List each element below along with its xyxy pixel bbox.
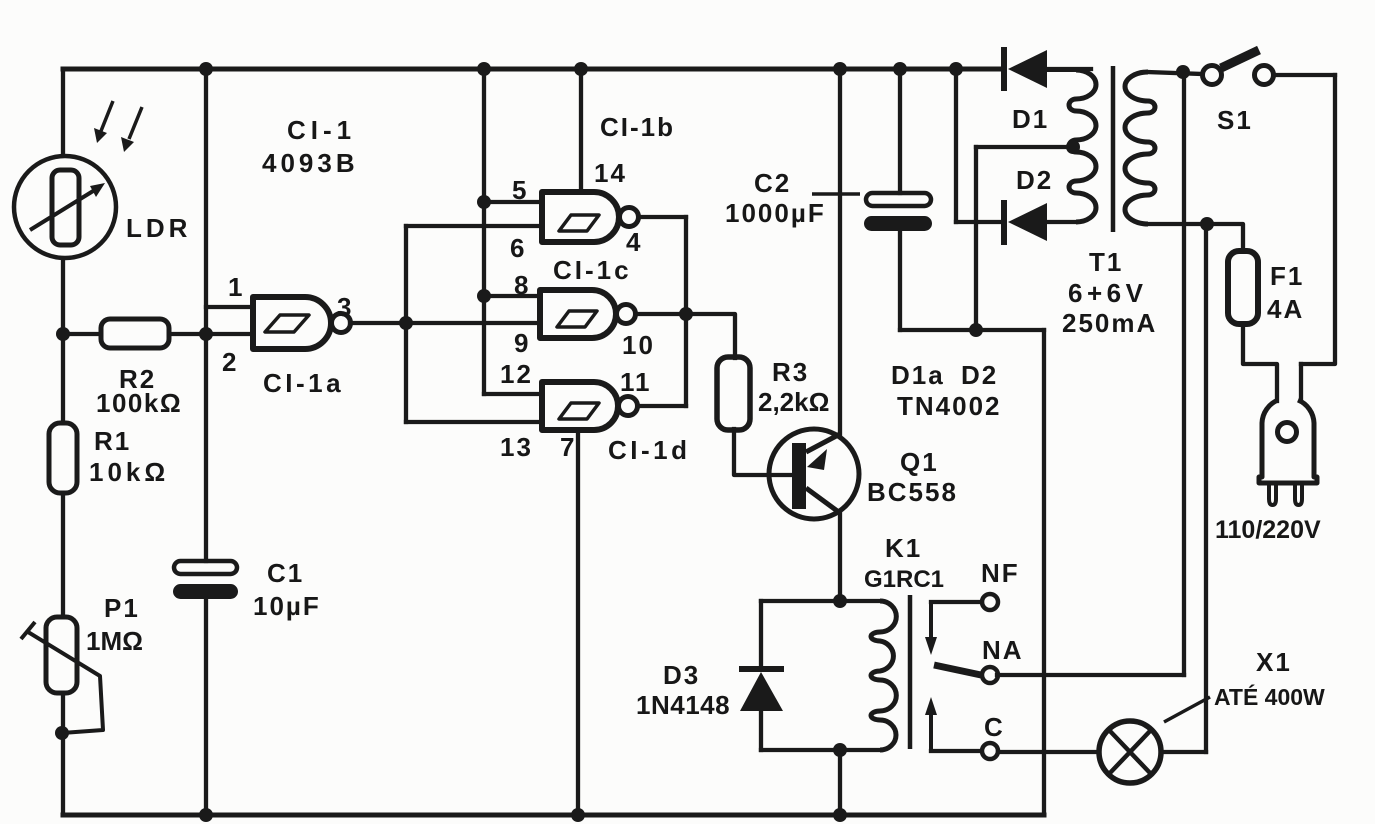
node R2-pin2-C1 (199, 327, 213, 341)
node center tap ground (969, 323, 983, 337)
wire pin5 stub (484, 200, 542, 204)
plug right prong (1295, 483, 1302, 505)
node bottom rail x838 (833, 808, 847, 822)
wire pin13 stub (406, 420, 542, 424)
diode D2 triangle (1008, 203, 1047, 241)
potentiometer P1 wiper tail tick (21, 622, 35, 639)
LDR body (52, 170, 79, 245)
wire C contact lead (931, 749, 981, 753)
svg-text:5: 5 (512, 175, 528, 205)
wire D3 top lead (759, 601, 763, 667)
node top rail x484 (477, 62, 491, 76)
wire R3 bottom to Q1 base (734, 429, 792, 475)
lamp X1 circle (1099, 721, 1161, 783)
svg-text:TN4002: TN4002 (897, 391, 1002, 421)
svg-text:100kΩ: 100kΩ (96, 388, 182, 418)
svg-text:250mA: 250mA (1062, 308, 1157, 338)
gate CI-1c output bubble (617, 305, 636, 324)
relay K1 core bar (908, 595, 913, 749)
node top rail x956 (949, 62, 963, 76)
svg-text:10kΩ: 10kΩ (89, 457, 169, 487)
transformer T1 secondary winding (1069, 70, 1096, 222)
gate CI-1c schmitt symbol (557, 311, 597, 327)
lamp X1 cross (1109, 730, 1151, 774)
gate CI-1d body (542, 382, 618, 430)
switch S1 right terminal (1255, 66, 1274, 85)
svg-text:D3: D3 (663, 660, 700, 690)
svg-text:T1: T1 (1089, 247, 1123, 277)
svg-text:NF: NF (981, 558, 1020, 588)
diode D1 cathode bar (1001, 47, 1007, 91)
wire R2 left lead (63, 332, 101, 336)
svg-text:6: 6 (510, 233, 526, 263)
node LDR-R2-R1 (56, 327, 70, 341)
svg-text:X1: X1 (1256, 647, 1292, 677)
LDR light arrow 2 head (121, 137, 134, 152)
node bottom rail x206 (199, 808, 213, 822)
LDR light arrow 1 head (94, 128, 107, 143)
wire R2 node to R1 (61, 334, 65, 423)
wire D2 branch vertical x956 (954, 69, 958, 222)
svg-text:K1: K1 (885, 533, 922, 563)
svg-text:ATÉ 400W: ATÉ 400W (1214, 683, 1325, 710)
LDR arrow head (90, 183, 105, 197)
gate CI-1a output bubble (332, 314, 351, 333)
wire D2 left lead (956, 220, 1002, 224)
transistor Q1 emitter line (806, 434, 840, 452)
svg-text:C: C (984, 712, 1005, 742)
svg-text:S1: S1 (1217, 105, 1253, 135)
wire gate-b output (639, 215, 686, 219)
wire relay to bottom rail (838, 750, 842, 815)
LDR diagonal arrow (30, 188, 98, 230)
svg-text:6+6V: 6+6V (1068, 278, 1147, 308)
wire NF contact lead (931, 600, 982, 604)
gate CI-1b schmitt symbol (559, 215, 599, 231)
potentiometer P1 body (46, 617, 77, 693)
relay C arrow head (925, 697, 937, 715)
diode D3 triangle (740, 672, 783, 711)
transistor Q1 emitter arrow (807, 449, 827, 470)
svg-text:C1: C1 (267, 558, 304, 588)
wire plug right neck (1299, 364, 1303, 400)
svg-text:2,2kΩ: 2,2kΩ (758, 387, 829, 417)
svg-text:D2: D2 (1016, 165, 1053, 195)
svg-text:NA: NA (982, 635, 1024, 665)
node pin8 (477, 289, 491, 303)
wire P1 to bottom rail (61, 693, 65, 815)
capacitor C1 bottom plate (174, 585, 237, 598)
relay NF arrow head (925, 637, 937, 655)
diode D1 triangle (1008, 50, 1047, 88)
resistor R3 (717, 357, 750, 430)
svg-text:R1: R1 (94, 426, 131, 456)
svg-text:8: 8 (514, 270, 530, 300)
svg-text:2: 2 (222, 347, 238, 377)
wire R2 right lead (169, 332, 206, 336)
capacitor C2 pointer line (812, 192, 860, 196)
wire NA contact to mains vertical (997, 673, 1184, 677)
diode D3 cathode bar (739, 666, 784, 672)
gate CI-1a schmitt symbol (265, 315, 309, 332)
node primary top S1 (1176, 65, 1190, 79)
wire supply vertical x484 (482, 69, 486, 394)
node gate-a output feedback (399, 316, 413, 330)
wire S1 to right rail (1274, 73, 1335, 77)
wire LDR to R2 node (61, 259, 65, 334)
relay contact NA circle (982, 667, 998, 683)
wire pin14 vertical (579, 69, 583, 192)
wire pin12 stub (484, 392, 542, 396)
wire pin6 stub (406, 224, 542, 228)
svg-text:7: 7 (560, 432, 576, 462)
svg-text:CI-1d: CI-1d (608, 435, 691, 465)
svg-text:9: 9 (514, 328, 530, 358)
LDR light arrow 2 (129, 107, 142, 139)
wire C contact to lamp (998, 750, 1099, 754)
wire fuse bottom to plug left neck (1243, 324, 1277, 401)
node outputs join (679, 307, 693, 321)
fuse F1 body (1228, 251, 1258, 324)
wire center tap horizontal (976, 145, 1071, 149)
svg-text:10: 10 (622, 330, 655, 360)
wire primary top to S1 (1148, 72, 1202, 74)
relay contact NF circle (982, 594, 998, 610)
capacitor C2 bottom plate (865, 217, 931, 230)
svg-text:CI-1a: CI-1a (263, 368, 344, 398)
svg-text:LDR: LDR (126, 213, 191, 243)
svg-text:12: 12 (500, 359, 533, 389)
svg-text:3: 3 (337, 292, 353, 322)
wire C2 bottom lead (898, 230, 902, 330)
transformer T1 primary winding (1125, 72, 1155, 224)
wire primary bottom to fuse corner (1148, 224, 1243, 251)
plug hole (1278, 423, 1297, 442)
lamp X1 pointer (1164, 697, 1210, 722)
op-amp gate CI-1a body (253, 297, 331, 349)
transistor Q1 base bar (792, 443, 806, 509)
LDR light arrow 1 (101, 101, 113, 131)
wire top rail left segment (63, 67, 1002, 72)
resistor R1 (49, 423, 77, 493)
diode D2 cathode bar (1001, 200, 1007, 245)
svg-text:BC558: BC558 (867, 477, 958, 507)
node bottom rail x578 (571, 808, 585, 822)
svg-text:110/220V: 110/220V (1215, 516, 1321, 544)
svg-text:1000µF: 1000µF (725, 198, 826, 228)
node primary bottom riser (1200, 217, 1214, 231)
relay C arrow line (929, 712, 933, 751)
svg-text:G1RC1: G1RC1 (864, 566, 944, 593)
wire top rail to Q1 emitter (838, 69, 842, 434)
wire bottom rail (63, 813, 1044, 818)
wire top rail diode-to-transformer segment (1047, 67, 1091, 71)
wire gate-a output to pin9 (350, 321, 540, 325)
wire feedback vertical x406 (404, 226, 408, 422)
transformer T1 secondary bottom lead (1047, 70, 1076, 222)
node relay top (833, 594, 847, 608)
gate CI-1b body (542, 192, 619, 242)
wire mains vertical x1184 (S1 to NA) (1182, 72, 1186, 675)
svg-text:10µF: 10µF (253, 591, 321, 621)
transistor Q1 collector line (806, 488, 840, 513)
wire mains riser x1209 (1204, 224, 1208, 752)
wire pin7 vertical to bottom rail (576, 430, 580, 815)
wire ground return horizontal y330 (900, 328, 1044, 332)
wire D3 bottom lead (759, 711, 763, 750)
wire gate-d output (638, 404, 686, 408)
wire pin1 stub (206, 305, 253, 309)
svg-text:14: 14 (594, 158, 627, 188)
svg-text:CI-1b: CI-1b (600, 112, 675, 142)
relay contact C circle (982, 743, 998, 759)
node relay bottom (833, 743, 847, 757)
resistor R2 (101, 319, 169, 348)
wire gate-c output to R3 (636, 314, 735, 358)
wire relay bottom bar (761, 748, 880, 752)
gate CI-1b output bubble (620, 208, 639, 227)
svg-text:D1: D1 (1012, 104, 1049, 134)
wire pin2 stub (206, 332, 253, 336)
svg-text:4093B: 4093B (262, 148, 359, 178)
node pin5 (477, 195, 491, 209)
gate CI-1c body (540, 290, 616, 338)
svg-text:13: 13 (500, 432, 533, 462)
wire D2 right lead (1047, 220, 1076, 224)
node P1 wiper (55, 726, 69, 740)
wire Q1 collector to relay (838, 513, 842, 601)
plug X-mains body (1259, 400, 1317, 483)
svg-text:11: 11 (620, 367, 652, 397)
relay lever (934, 665, 981, 675)
wire sensor vertical x206 upper (204, 69, 208, 561)
wire sensor vertical x206 lower (204, 598, 208, 815)
svg-text:P1: P1 (104, 593, 140, 623)
svg-text:D1a: D1a (891, 360, 945, 390)
node top rail x581 (574, 62, 588, 76)
svg-text:1: 1 (228, 272, 244, 302)
svg-text:1MΩ: 1MΩ (86, 626, 143, 656)
wire lamp to mains riser (1161, 750, 1206, 754)
node top rail x838 (833, 62, 847, 76)
wire pin8 stub (484, 294, 540, 298)
svg-text:C2: C2 (754, 168, 791, 198)
plug left prong (1269, 483, 1276, 505)
relay NF arrow line (929, 602, 933, 640)
LDR circle (14, 156, 116, 258)
switch S1 lever (1221, 50, 1259, 68)
gate CI-1d output bubble (619, 397, 638, 416)
svg-text:CI-1: CI-1 (287, 115, 356, 145)
transformer T1 core (1111, 66, 1116, 232)
wire outputs join vertical x686 (684, 217, 688, 406)
svg-text:D2: D2 (961, 360, 998, 390)
svg-text:CI-1c: CI-1c (553, 255, 632, 285)
wire ground return vertical x1044 (1042, 330, 1046, 815)
transistor Q1 circle (769, 429, 859, 519)
wire relay top bar (761, 599, 880, 603)
svg-text:F1: F1 (1270, 261, 1304, 291)
svg-text:Q1: Q1 (900, 447, 939, 477)
svg-text:R3: R3 (772, 357, 809, 387)
gate CI-1d schmitt symbol (559, 403, 599, 419)
svg-text:4: 4 (626, 227, 642, 257)
wire right rail down (1301, 75, 1335, 364)
svg-text:1N4148: 1N4148 (636, 690, 730, 720)
wire C2 top lead (898, 69, 902, 193)
capacitor C1 top plate (174, 561, 237, 574)
node top rail x206 (199, 62, 213, 76)
node center tap (1066, 140, 1080, 154)
potentiometer P1 wiper arm (28, 632, 103, 733)
wire R1 to P1 (61, 493, 65, 617)
node top rail x898 (893, 62, 907, 76)
wire center-tap vertical x976 (974, 147, 978, 330)
relay K1 coil (871, 601, 896, 750)
capacitor C2 top plate (866, 193, 931, 206)
switch S1 left terminal (1203, 66, 1222, 85)
wire left rail top (to LDR) (61, 69, 65, 155)
svg-text:4A: 4A (1267, 294, 1304, 324)
